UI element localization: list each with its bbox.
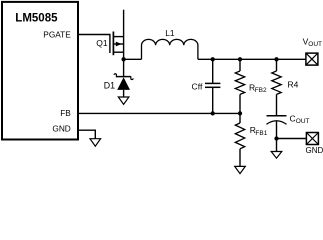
ground below COUT [271, 139, 282, 159]
node FB rail Cff junction [211, 111, 215, 115]
svg-text:PGATE: PGATE [43, 30, 71, 40]
node output rail RFB2 junction [238, 57, 242, 61]
resistor R4 [272, 59, 299, 116]
node output rail Cff junction [211, 57, 215, 61]
node output rail R4 junction [274, 57, 278, 61]
svg-text:C: C [290, 113, 296, 123]
wire switch node to L1 [124, 58, 142, 60]
inductor L1 [142, 28, 198, 59]
wire PGATE to Q1 gate [79, 35, 110, 54]
svg-text:FB2: FB2 [255, 87, 267, 94]
svg-text:D1: D1 [104, 80, 115, 90]
node switch node dot [121, 57, 125, 61]
svg-text:OUT: OUT [296, 118, 310, 125]
ground below D1 [118, 97, 129, 104]
op-amp U1 LM5085 block [2, 2, 78, 140]
svg-text:OUT: OUT [308, 41, 322, 48]
wire GND pin to ground [79, 130, 96, 139]
diode D1 (Schottky) [104, 74, 133, 91]
ground below RFB1 [235, 166, 246, 173]
capacitor Cff [192, 59, 221, 113]
svg-text:LM5085: LM5085 [15, 13, 58, 25]
wire FB rail [79, 112, 241, 114]
node FB rail RFB junction [238, 111, 242, 115]
svg-text:FB: FB [60, 108, 71, 118]
node COUT bottom junction [274, 136, 278, 140]
svg-text:R4: R4 [288, 80, 299, 90]
wire COUT to GND terminal [277, 138, 307, 140]
resistor RFB1 [235, 113, 267, 166]
resistor RFB2 [235, 59, 267, 113]
wire switch node to D1 cathode [123, 59, 125, 76]
ground below GND pin [90, 139, 101, 147]
wire output rail [198, 58, 306, 60]
svg-text:Cff: Cff [192, 82, 204, 92]
transistor Q1 (PMOS) [96, 32, 123, 56]
terminal GND [306, 133, 323, 155]
wire D1 anode to ground [123, 90, 125, 97]
wire VIN stub / Q1 source-drain vertical [123, 10, 125, 60]
svg-text:Q1: Q1 [96, 38, 108, 48]
svg-text:GND: GND [306, 146, 323, 155]
svg-text:L1: L1 [165, 28, 175, 38]
svg-text:FB1: FB1 [255, 130, 267, 137]
capacitor COUT (polarized) [267, 113, 310, 138]
terminal VOUT [303, 36, 322, 65]
svg-text:GND: GND [52, 123, 70, 133]
